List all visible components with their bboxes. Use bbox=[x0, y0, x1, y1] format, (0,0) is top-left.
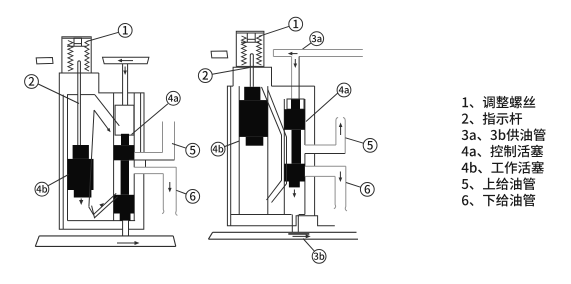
callout circle 2 (right machine) bbox=[198, 69, 212, 83]
control piston 4a upper (left) bbox=[114, 134, 135, 195]
screw thread (right, right side) bbox=[257, 36, 262, 65]
callout circle 5 (left machine) leader bbox=[172, 144, 186, 149]
control piston bore (right) bbox=[284, 99, 305, 215]
working piston 4b (left) bbox=[68, 145, 94, 198]
arrow in stem (left) bbox=[123, 67, 127, 76]
flow arrow in base plate (left) bbox=[117, 241, 140, 245]
callout circle 4a (right machine) leader bbox=[306, 93, 338, 122]
oil channel to pipe 6 (right) bbox=[305, 166, 346, 176]
adjusting-screw housing (left) bbox=[62, 37, 91, 73]
callout circle 5 (left machine) bbox=[186, 143, 200, 157]
callout circle 3a leader bbox=[302, 43, 311, 50]
callout circle 5 (right machine) leader bbox=[345, 138, 363, 143]
linkage band inner (right) bbox=[262, 87, 282, 200]
arrow in pipe 5 (right) bbox=[339, 123, 343, 136]
callout circle 4a (left machine) leader bbox=[132, 104, 168, 135]
base plate (right) bbox=[208, 232, 358, 239]
callout circle 3b leader bbox=[303, 239, 315, 252]
indicator rod (right) bbox=[250, 54, 253, 87]
callout circle 6 (right machine) leader bbox=[346, 183, 361, 188]
linkage lever diagonal (left) bbox=[95, 95, 119, 126]
callout circle 4b (left machine) bbox=[35, 182, 49, 196]
flow arrow in pipe 3a bbox=[288, 52, 298, 56]
callout circle 1 (left machine) leader bbox=[87, 32, 119, 41]
pedestal (right) bbox=[233, 67, 271, 86]
arrow under piston (right) bbox=[293, 190, 297, 198]
control piston cylinder box (right) bbox=[287, 99, 304, 109]
callout circle 1 (left machine) bbox=[118, 24, 132, 38]
working-piston bore (left) bbox=[68, 95, 136, 221]
stem flange (right bottom) bbox=[288, 233, 309, 235]
callout circle 4b (left machine) leader bbox=[48, 175, 69, 186]
lower oil pipe 6 (right) bbox=[334, 166, 347, 211]
arrow in pipe 6 (left) bbox=[168, 182, 172, 192]
callout circle 2 (right machine) leader bbox=[212, 68, 249, 75]
small plate (right upper-left) bbox=[211, 51, 228, 58]
callout circle 4a (right machine) bbox=[337, 83, 351, 97]
callout circle 1 (right machine) bbox=[289, 17, 303, 31]
callout circle 6 (left machine) bbox=[186, 190, 200, 204]
oil channel to pipe 6 (left) bbox=[134, 167, 176, 173]
control piston 4a lower (left) bbox=[114, 195, 135, 221]
linkage vertical member (left) bbox=[89, 110, 94, 206]
inner wall (right body) bbox=[230, 86, 232, 226]
linkage arrow diagonal (left) bbox=[94, 110, 111, 132]
flow arrow at 3b bbox=[293, 234, 311, 238]
machine body outline (right) bbox=[227, 86, 334, 226]
small plate (left upper-left) bbox=[36, 58, 53, 64]
supply stem into body (right) bbox=[292, 57, 300, 100]
arrow in supply stem bbox=[294, 59, 298, 68]
legend text block bbox=[462, 96, 546, 206]
inner wall (left body) bbox=[62, 95, 64, 230]
machine body outline (left) bbox=[59, 73, 145, 229]
working-piston bore (right) bbox=[231, 86, 305, 214]
control piston 4a upper (right) bbox=[284, 100, 305, 164]
drain stem (left) bbox=[123, 221, 129, 236]
linkage check band (left) bbox=[89, 193, 118, 217]
base plate (left) bbox=[35, 236, 176, 247]
callout circle 6 (right machine) bbox=[360, 183, 374, 197]
adjusting-screw housing (right) bbox=[236, 31, 264, 66]
callout circle 2 (left machine) bbox=[25, 75, 39, 89]
callout circle 3a bbox=[310, 32, 324, 46]
oil channel to pipe 5 (right) bbox=[305, 145, 345, 154]
screw thread (left, left side) bbox=[68, 41, 73, 72]
callout circle 6 (left machine) leader bbox=[176, 190, 186, 194]
callout circle 4a (left machine) bbox=[166, 91, 180, 105]
linkage check arrowhead (left) bbox=[99, 203, 104, 207]
callout circle 5 (right machine) bbox=[363, 139, 377, 153]
oil supply pipe 3a bbox=[273, 50, 362, 57]
arrow in pipe 6 (right) bbox=[339, 172, 343, 183]
upper oil pipe 5 (right) bbox=[336, 118, 345, 154]
linkage band outer (right) bbox=[268, 90, 287, 203]
control piston 4a lower (right) bbox=[284, 164, 305, 188]
indicator rod (left) bbox=[78, 61, 81, 145]
oil channel to pipe 5 (left) bbox=[129, 153, 175, 161]
control piston cylinder box (left) bbox=[115, 105, 134, 135]
indicator tee handle (left) bbox=[103, 57, 149, 64]
screw thread (right, left side) bbox=[242, 36, 247, 65]
upper oil pipe 5 (left) bbox=[163, 122, 175, 161]
control piston bore (left) bbox=[114, 93, 135, 221]
callout circle 4b (right machine) bbox=[211, 142, 225, 156]
callout circle 1 (right machine) leader bbox=[259, 26, 289, 36]
working piston 4b (right) bbox=[239, 87, 268, 146]
callout circle 4b (right machine) leader bbox=[225, 141, 240, 147]
screw thread (left, right side) bbox=[85, 41, 89, 72]
callout circle 2 (left machine) leader bbox=[38, 84, 79, 104]
supply stem 3b (right bottom) bbox=[292, 215, 298, 233]
lower oil pipe 6 (left) bbox=[162, 167, 177, 215]
arrow under piston 4b (left) bbox=[79, 199, 83, 206]
tee handle stem (left) bbox=[123, 64, 128, 105]
callout circle 3b bbox=[312, 250, 326, 264]
